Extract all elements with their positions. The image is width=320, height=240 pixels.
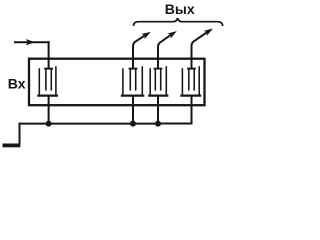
input arrow wire xyxy=(15,41,49,43)
output arrow 1 wire xyxy=(133,36,145,69)
output arrowhead 2 xyxy=(167,31,176,38)
wire resonator 4 to bus corner xyxy=(158,96,192,124)
resonator 2 xyxy=(122,67,143,96)
junction dot node 3 xyxy=(155,121,161,127)
svg-text:Вх: Вх xyxy=(8,76,26,92)
output arrow 3 wire xyxy=(192,32,208,68)
output arrowhead 3 xyxy=(204,29,213,36)
filter body box xyxy=(29,59,205,105)
resonator 3 xyxy=(149,67,167,96)
wire resonator 1 to bus xyxy=(48,96,50,124)
wire bus to ground xyxy=(19,124,21,144)
resonator 1 xyxy=(38,67,57,96)
input arrowhead xyxy=(26,39,35,45)
wire resonator 2 to bus xyxy=(132,96,134,124)
wire input corner down to resonator 1 xyxy=(48,42,50,68)
resonator 4 xyxy=(182,67,201,96)
junction dot node 1 xyxy=(46,121,52,127)
junction dot node 2 xyxy=(130,121,136,127)
output arrowhead 1 xyxy=(141,32,150,39)
wire resonator 3 to bus xyxy=(157,96,159,124)
svg-text:Вых: Вых xyxy=(165,1,195,17)
ground bus wire xyxy=(20,123,49,125)
output arrow 2 wire xyxy=(158,35,171,69)
ground xyxy=(3,144,21,148)
brace over outputs xyxy=(134,18,223,25)
